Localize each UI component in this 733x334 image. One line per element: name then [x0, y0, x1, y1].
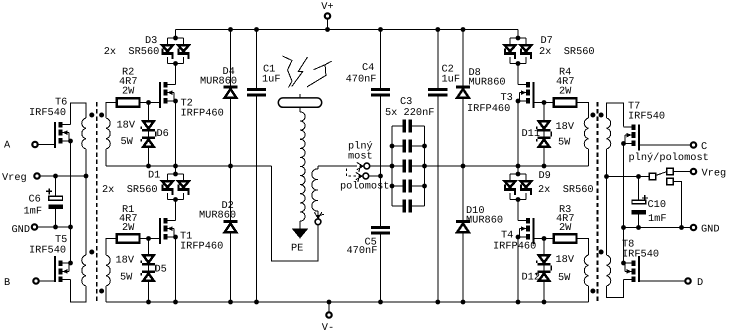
wire: T5 source up to GND row: [70, 227, 72, 263]
wire: D9 to T4 drain: [517, 200, 519, 221]
svg-text:Vreg: Vreg: [2, 172, 27, 184]
transistor T2 IRFP460: [159, 82, 178, 108]
transistor T5 IRF540 (source up): [54, 256, 73, 282]
transformer lower-left winding (T5 side): [82, 176, 86, 286]
connector socket plny most: [364, 163, 370, 169]
switch blade: [656, 172, 666, 176]
connector socket primary bottom: [315, 219, 321, 225]
polarity dot lower-right winding right: [599, 250, 604, 255]
zener pair D12 18V 5W: [522, 237, 575, 303]
transformer upper-left winding (T6 side): [82, 118, 86, 176]
svg-text:5W: 5W: [558, 272, 571, 284]
wire: Vreg row right: [604, 174, 649, 179]
svg-text:D9: D9: [539, 170, 551, 182]
svg-text:IRF540: IRF540: [628, 111, 665, 123]
wire: T3 source to right bridge mid node: [517, 101, 519, 166]
connector arrow polomost: [356, 172, 363, 182]
transistor T1 IRFP460: [159, 218, 178, 244]
wire: left bridge mid row y=166: [106, 164, 272, 169]
wire: polomost socket to C4/C5 midpoint: [368, 174, 383, 179]
capacitor C5 470nF: [347, 226, 391, 302]
terminal GND right: [691, 223, 720, 235]
diode D2 MUR860: [199, 166, 238, 302]
svg-text:18V: 18V: [556, 254, 575, 266]
polarity dot lower-left winding: [89, 250, 94, 255]
switch contact upper to Vreg: [667, 168, 691, 175]
polarity dot upper-left winding right: [590, 113, 595, 118]
svg-text:B: B: [4, 277, 10, 289]
transformer lower-right winding (T8 side): [607, 177, 624, 298]
terminal B: [4, 277, 39, 289]
wire: left bridge mid around to primary bottom: [272, 166, 319, 261]
capacitor C10 1mF electrolytic: [632, 177, 667, 228]
terminal GND left: [12, 224, 38, 236]
terminal V-: [322, 302, 334, 334]
svg-text:1mF: 1mF: [24, 206, 43, 218]
dashed jumper alternative polomost: [347, 169, 357, 177]
svg-text:IRFP460: IRFP460: [181, 108, 224, 120]
svg-text:2W: 2W: [559, 86, 572, 98]
wire: B to T5 gate: [39, 280, 54, 282]
transistor T4 IRFP460: [516, 218, 535, 244]
svg-text:IRF540: IRF540: [622, 249, 659, 261]
terminal C: [691, 141, 707, 153]
svg-text:C4: C4: [362, 62, 374, 74]
wire: T7 source down to GND row right: [623, 144, 625, 228]
svg-text:Vreg: Vreg: [702, 167, 727, 179]
svg-text:plný/polomost: plný/polomost: [629, 152, 709, 164]
wire: Vreg row left: [40, 174, 89, 179]
diode pair D3 2x SR560: [104, 35, 190, 66]
terminal Vreg right: [691, 167, 726, 179]
transformer core (right, dashed): [597, 102, 599, 303]
capacitor C2 1uF: [428, 30, 460, 303]
svg-text:18V: 18V: [116, 255, 135, 267]
wire: R2 to T2 gate node: [140, 100, 159, 105]
terminal Vreg left: [2, 172, 40, 184]
transistor T6 IRF540: [54, 122, 73, 148]
svg-text:D: D: [697, 277, 703, 289]
wire: T4 gate node to R3: [535, 236, 554, 241]
terminal D: [685, 277, 703, 289]
wire: T8 source up to GND row: [623, 228, 625, 264]
secondary coil: [300, 107, 305, 221]
wire: top rail corner down to D3: [173, 30, 178, 41]
transformer lower-right winding (T1 gate side): [106, 239, 117, 303]
toroid (top electrode): [278, 94, 321, 107]
svg-text:5W: 5W: [121, 136, 134, 148]
svg-text:5W: 5W: [120, 272, 133, 284]
svg-text:GND: GND: [12, 224, 31, 236]
svg-text:D11: D11: [522, 128, 541, 140]
svg-text:18V: 18V: [556, 121, 575, 133]
diode D8 MUR860: [456, 30, 506, 167]
wire: T6 drain to upper transformer left winding top: [71, 103, 87, 125]
wire: plny most socket to C3 left bus: [369, 165, 392, 167]
wire: GND row left: [37, 225, 73, 230]
svg-text:PE: PE: [291, 243, 303, 255]
svg-text:2W: 2W: [559, 222, 572, 234]
wire: V- bottom rail: [106, 300, 589, 305]
svg-text:IRF540: IRF540: [29, 107, 66, 119]
transformer upper-right winding (T7 side): [607, 103, 624, 177]
transistor T3 IRFP460: [516, 82, 535, 108]
wire: T5 drain loop to lower transformer left winding bottom: [71, 280, 87, 303]
wire: D3 to T2 drain: [175, 64, 177, 85]
svg-text:470nF: 470nF: [347, 245, 378, 257]
polarity dot upper-left winding: [89, 113, 94, 118]
svg-text:C: C: [701, 141, 707, 153]
transformer upper-left winding (T3 gate side): [584, 118, 588, 166]
svg-text:5x 220nF: 5x 220nF: [385, 107, 434, 119]
svg-text:IRF540: IRF540: [29, 245, 66, 257]
diode D4 MUR860: [200, 30, 238, 167]
terminal A: [4, 139, 38, 151]
svg-text:2x SR560: 2x SR560: [538, 184, 594, 196]
svg-text:C10: C10: [648, 199, 667, 211]
terminal V+: [321, 1, 333, 30]
polarity dot lower-left winding right: [590, 289, 595, 294]
svg-text:A: A: [4, 139, 11, 151]
svg-text:2W: 2W: [122, 222, 135, 234]
wire: D7 to T3 drain: [517, 64, 519, 85]
ground PE: [291, 221, 308, 255]
svg-text:2W: 2W: [122, 86, 135, 98]
wire: D1 to T1 drain: [175, 200, 177, 221]
spark bolt right: [292, 57, 332, 87]
wire: top rail corner down to D7: [516, 30, 521, 41]
connector arrow primary bottom: [314, 212, 324, 219]
diode D10 MUR860: [456, 166, 503, 302]
transistor T8 IRF540 (source up): [621, 256, 640, 282]
svg-text:MUR860: MUR860: [200, 76, 237, 88]
wire: T2 source to left bridge mid node: [175, 101, 177, 166]
svg-text:V-: V-: [322, 322, 334, 334]
svg-text:5W: 5W: [558, 137, 571, 149]
capacitor C6 1mF electrolytic: [24, 176, 64, 227]
transformer core (left, dashed): [96, 102, 98, 303]
capacitor C1 1uF: [247, 30, 281, 303]
transistor T7 IRF540: [621, 125, 640, 151]
svg-text:1mF: 1mF: [648, 213, 667, 225]
svg-text:most: most: [348, 150, 373, 162]
wire: T3 gate node to R4: [535, 100, 554, 105]
diode pair D1 2x SR560: [102, 166, 190, 202]
svg-text:MUR860: MUR860: [469, 77, 506, 89]
zener pair D11 18V 5W: [522, 103, 575, 167]
primary winding of output transformer: [312, 166, 318, 216]
polarity dot upper-right winding right: [599, 113, 604, 118]
wire: T6 source down to GND row: [70, 141, 72, 227]
svg-text:IRFP460: IRFP460: [493, 241, 536, 253]
svg-text:1uF: 1uF: [262, 74, 281, 86]
svg-text:D12: D12: [522, 272, 541, 284]
zener pair D5 18V 5W: [116, 237, 167, 303]
wire: V+ top rail: [176, 27, 519, 32]
wire: A to T6 gate: [38, 144, 54, 146]
svg-text:MUR860: MUR860: [466, 215, 503, 227]
wire: GND row right: [621, 225, 691, 230]
switch contact left (plny/polomost): [649, 173, 656, 180]
diode pair D9 2x SR560: [504, 166, 594, 202]
transformer upper-right winding (T2 gate side): [106, 103, 117, 167]
wire: C4 to C5 through midpoint: [380, 96, 382, 226]
diode pair D7 2x SR560: [504, 35, 595, 66]
connector arrow plny most: [357, 162, 364, 172]
svg-text:polomost: polomost: [340, 180, 389, 192]
svg-text:D5: D5: [155, 264, 167, 276]
capacitor bank C3 5x 220nF: [385, 96, 434, 213]
polarity dot lower-right winding: [99, 289, 104, 294]
capacitor C4 470nF: [346, 30, 391, 97]
svg-text:18V: 18V: [117, 120, 136, 132]
wire: T4 source to V- rail: [517, 237, 519, 302]
wire: T8 gate to terminal D: [640, 280, 685, 282]
svg-text:D1: D1: [148, 170, 160, 182]
svg-text:IRFP460: IRFP460: [180, 241, 223, 253]
svg-text:MUR860: MUR860: [199, 210, 236, 222]
svg-text:GND: GND: [701, 223, 720, 235]
wire: R4 to upper transformer left winding: [577, 103, 589, 119]
spark bolt left: [283, 56, 293, 88]
connector socket polomost: [363, 173, 369, 179]
switch contact lower to GND: [667, 178, 682, 227]
resistor R4 4R7 2W: [554, 67, 577, 107]
wire: T7 gate to terminal C: [640, 144, 691, 146]
wire: primary top to fullbridge connector: [318, 165, 357, 167]
zener pair D6 18V 5W: [117, 103, 169, 167]
svg-text:2x SR560: 2x SR560: [104, 46, 160, 58]
svg-text:2x SR560: 2x SR560: [102, 184, 158, 196]
transformer lower-left winding (T4 gate side): [577, 239, 589, 303]
svg-text:V+: V+: [321, 1, 333, 13]
svg-text:470nF: 470nF: [346, 73, 377, 85]
svg-text:1uF: 1uF: [442, 74, 461, 86]
wire: T1 source to V- rail: [175, 237, 177, 302]
resistor R3 4R7 2W: [554, 204, 577, 243]
resistor R1 4R7 2W: [117, 204, 140, 243]
svg-text:2x SR560: 2x SR560: [539, 46, 595, 58]
svg-text:D6: D6: [157, 128, 169, 140]
svg-text:C6: C6: [29, 193, 41, 205]
svg-text:IRFP460: IRFP460: [467, 103, 510, 115]
wire: right bridge mid row y=166: [425, 164, 589, 169]
resistor R2 4R7 2W: [117, 67, 140, 107]
polarity dot upper-right winding: [99, 113, 104, 118]
wire: R1 to T1 gate node: [140, 236, 159, 241]
